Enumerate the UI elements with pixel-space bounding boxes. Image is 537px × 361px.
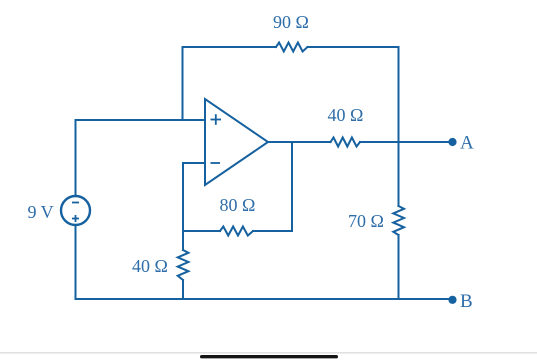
source minus sign [72,202,79,204]
wire feedback right vertical up to output [291,142,293,231]
wire inverting input horizontal [183,162,205,164]
op-amp plus input mark [211,114,222,125]
wire source vertical lower [75,226,77,300]
svg-text:90 Ω: 90 Ω [273,12,309,32]
svg-text:80 Ω: 80 Ω [220,195,256,215]
wire feedback bottom right segment [253,230,292,232]
node B dot [448,296,456,304]
wire noninverting input horizontal [76,119,206,121]
wire right vertical lower (70 ohm to bottom row) [398,235,400,299]
resistor R1 90 ohm (top feedback) [276,43,308,52]
node A dot [448,138,456,146]
wire bottom horizontal [76,298,399,300]
svg-text:B: B [460,291,473,312]
home indicator bar [200,355,338,358]
wire source vertical upper [75,120,77,196]
op-amp minus input mark [211,162,221,164]
wire inverting branch down to 40 ohm [182,231,184,250]
wire op-amp output [268,141,331,143]
wire top horizontal right segment [308,46,399,48]
wire output to node A [360,141,448,143]
resistor R4 70 ohm (vertical, right side) [393,206,404,235]
resistor R2 40 ohm (output series) [331,138,361,147]
svg-text:40 Ω: 40 Ω [132,256,168,276]
wire top-left vertical from noninverting input up to feedback row [182,47,184,120]
wire top horizontal left segment [183,46,277,48]
separator line [0,352,537,354]
voltage source V1 9V circle [61,196,90,225]
op-amp U1 triangle [205,99,268,185]
svg-text:A: A [460,133,474,154]
wire feedback bottom left segment [183,230,220,232]
wire 40 ohm to bottom row [182,280,184,299]
wire right vertical upper (top row down to 70 ohm) [398,47,400,206]
resistor R3 80 ohm (feedback bottom) [220,227,253,236]
source plus sign [72,215,79,222]
svg-text:40 Ω: 40 Ω [328,105,364,125]
svg-text:70 Ω: 70 Ω [348,211,384,231]
resistor R5 40 ohm (vertical, lower left) [178,250,189,280]
wire bottom stub to node B [399,298,449,300]
wire inverting feedback vertical [182,163,184,231]
svg-text:9 V: 9 V [28,202,54,222]
